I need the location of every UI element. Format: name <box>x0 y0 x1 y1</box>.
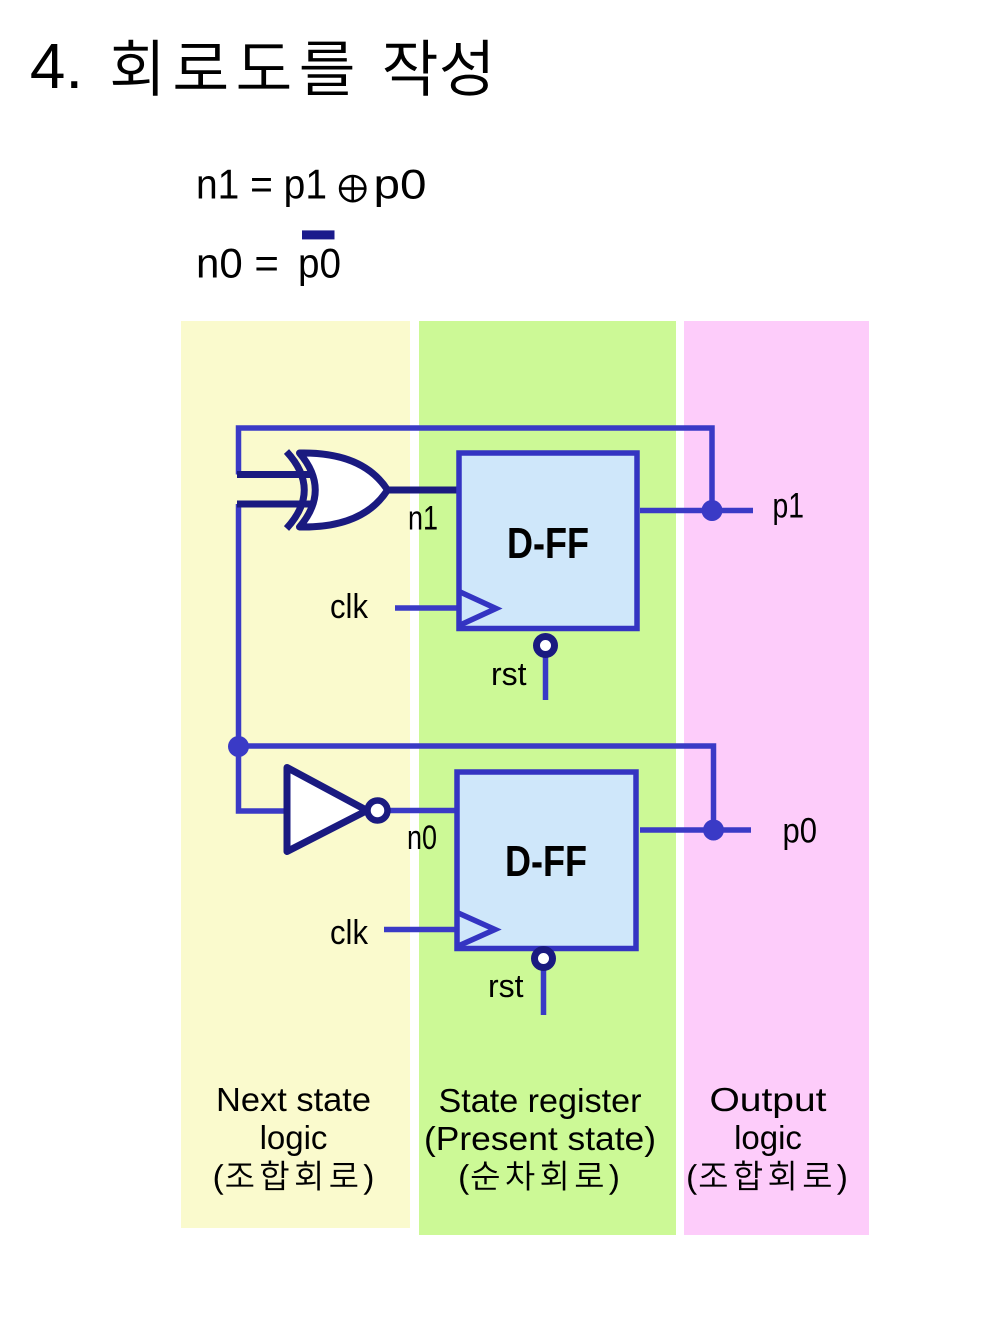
title "4." <box>31 44 77 88</box>
overline bar on p0 <box>302 230 335 239</box>
svg-text:rst: rst <box>491 656 527 692</box>
svg-text:Next state: Next state <box>216 1081 371 1118</box>
NOT gate U2 bubble <box>368 801 388 821</box>
svg-text:D-FF: D-FF <box>505 837 587 886</box>
svg-text:clk: clk <box>330 914 369 952</box>
svg-text:p0: p0 <box>374 161 427 208</box>
svg-text:Output: Output <box>710 1081 827 1118</box>
D-FF 2 box <box>457 772 636 949</box>
wire: p0 feedback loop <box>239 746 714 830</box>
xor gate U1 leading arc <box>287 452 305 529</box>
svg-text:p0: p0 <box>783 812 818 851</box>
junction node p1 <box>702 500 723 521</box>
band label hangul (조합회로) yellow <box>215 1161 373 1195</box>
wire: D-FF1 output to p1 <box>640 508 753 514</box>
wire: clk2 <box>384 927 457 933</box>
wire: p0 up to xor input B <box>236 504 242 746</box>
band: Next state logic (yellow) <box>181 321 410 1228</box>
svg-text:n1: n1 <box>408 500 438 538</box>
band label hangul (순차회로) green <box>460 1161 618 1195</box>
band: State register (green) <box>419 321 676 1235</box>
wire: D-FF2 output to p0 <box>640 827 751 833</box>
svg-text:n1 = p1: n1 = p1 <box>196 161 327 208</box>
band: Output logic (pink) <box>684 321 869 1235</box>
wire: rst1 stub <box>543 656 549 700</box>
D-FF 2 rst bubble <box>535 950 553 968</box>
svg-text:logic: logic <box>734 1119 802 1156</box>
svg-text:n0 =: n0 = <box>196 240 279 287</box>
junction node left (p0 to xor) <box>228 736 249 757</box>
wire: clk1 <box>395 605 457 611</box>
svg-text:logic: logic <box>260 1119 328 1156</box>
wire: p1 feedback top loop <box>239 428 713 511</box>
wire: NOT output to D-FF 2 <box>391 808 458 814</box>
xor gate U1 body <box>300 453 388 527</box>
wire: left vertical down to NOT input <box>239 746 288 811</box>
svg-text:n0: n0 <box>407 819 437 857</box>
D-FF 1 rst bubble <box>537 637 555 655</box>
svg-text:State register: State register <box>439 1082 642 1119</box>
svg-text:D-FF: D-FF <box>507 519 589 568</box>
band label hangul (조합회로) pink <box>688 1161 846 1195</box>
D-FF 1 box <box>459 453 637 629</box>
xor symbol ⊕ <box>340 176 365 201</box>
svg-text:(Present state): (Present state) <box>424 1120 656 1157</box>
xor gate U1 input stub B <box>237 501 330 508</box>
junction node p0 <box>703 820 724 841</box>
D-FF 1 clock triangle <box>458 591 496 626</box>
svg-text:rst: rst <box>488 968 524 1004</box>
xor gate U1 output stub <box>384 487 457 494</box>
svg-text:p0: p0 <box>298 240 341 287</box>
wire: rst2 stub <box>541 969 547 1015</box>
svg-text:clk: clk <box>330 588 369 626</box>
title "회로도를 작성" <box>113 40 488 96</box>
xor gate U1 input stub A <box>237 471 330 478</box>
NOT gate U2 body <box>287 768 367 852</box>
svg-text:p1: p1 <box>773 487 805 526</box>
D-FF 2 clock triangle <box>456 912 495 947</box>
